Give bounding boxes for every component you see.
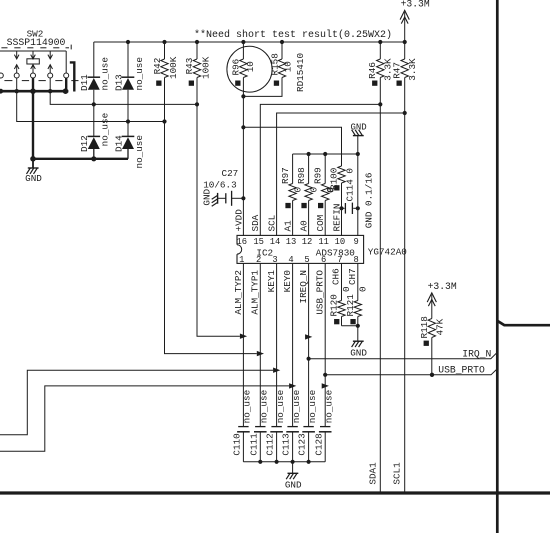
svg-text:no_use: no_use [134,135,145,168]
switch frame bracket [70,62,75,91]
svg-text:0: 0 [357,286,368,292]
diode D14 no_use [122,135,135,137]
switch contact arrows [16,51,18,59]
bus horizontal (bottom, thick) [0,491,550,494]
svg-text:RD15410: RD15410 [295,53,306,92]
wire pin5 IREQ_N down [308,263,310,426]
resistor R97 0 [292,154,294,184]
diode D11 no_use [93,42,95,77]
svg-text:47K: 47K [434,318,445,335]
svg-text:15: 15 [253,237,264,247]
svg-text:R120: R120 [329,294,340,316]
wire top pull-up rail [94,41,405,43]
svg-text:C110: C110 [232,433,243,455]
svg-text:14: 14 [270,237,281,247]
svg-text:GND: GND [350,122,366,132]
svg-text:SDA1: SDA1 [367,462,378,485]
svg-text:3.3K: 3.3K [407,58,418,81]
svg-text:R121: R121 [345,294,356,317]
diode D13 no_use [127,42,129,77]
svg-text:SSSP114900: SSSP114900 [7,37,66,48]
svg-text:IC2: IC2 [256,248,273,259]
ground (C27) [217,193,219,204]
bus vertical (right, thick) [496,0,499,533]
switch dashed outline marks [4,80,12,82]
switch common bus (thick) [0,90,68,93]
resistor R96 10 [242,42,244,59]
resistor R121 0 [357,263,359,300]
svg-text:no_use: no_use [259,390,270,423]
wire ALM_TYP2 down to pin1 (wire1) [197,104,240,336]
ground (switch) [32,159,34,168]
diode D12 no_use [88,135,101,137]
ground (capacitor rail) [292,462,294,473]
svg-text:CH7: CH7 [347,268,358,285]
resistor R46 3.3K [379,42,381,59]
wire SDA pin15 to R46 [260,104,380,236]
svg-text:C114 0: C114 0 [345,168,356,201]
resistor R47 3.3K [404,42,406,59]
resistor R118 47K [428,319,435,338]
svg-text:R99: R99 [313,167,324,184]
resistor R158 10 [281,42,283,59]
switch pole wires to common bus [16,78,18,91]
svg-text:USB_PRTO: USB_PRTO [438,364,485,375]
svg-text:no_use: no_use [100,113,111,146]
svg-text:D13: D13 [113,74,124,91]
svg-text:R47: R47 [392,62,403,79]
wire switch common to GND (thick) [33,91,128,159]
svg-text:ADS7830: ADS7830 [316,248,355,259]
svg-text:D11: D11 [79,74,90,91]
svg-text:CH6: CH6 [331,268,342,285]
wire pin4 KEY0 down [292,263,294,426]
svg-text:IREQ_N: IREQ_N [298,270,309,303]
svg-text:0: 0 [293,187,304,193]
svg-text:16: 16 [237,237,248,247]
svg-text:13: 13 [286,237,297,247]
svg-text:R43: R43 [184,58,195,75]
svg-text:SDA: SDA [250,214,261,231]
svg-text:10: 10 [335,237,346,247]
svg-text:IRQ_N: IRQ_N [462,349,491,360]
op-amp/ADC IC2 ADS7830 body [237,235,364,263]
svg-text:C128: C128 [313,433,324,455]
svg-text:GND: GND [25,173,42,184]
svg-text:USB_PRTO: USB_PRTO [315,270,326,315]
wire pin1 ALM_TYP2 down [242,263,244,426]
svg-text:no_use: no_use [275,390,286,423]
svg-text:no_use: no_use [100,57,111,90]
wire pin3 KEY1 down [276,263,278,426]
svg-text:ALM_TYP2: ALM_TYP2 [233,270,244,315]
wire KEY1 to left edge (wire3) [0,370,273,435]
svg-text:C27: C27 [222,168,239,179]
ground (R120/R121) [353,340,364,342]
svg-text:no_use: no_use [291,390,302,423]
svg-text:10: 10 [245,61,256,72]
svg-text:no_use: no_use [307,390,318,423]
resistor R43 100K [196,42,198,59]
wire KEY0 to left edge (wire4) [0,386,289,451]
wire pin2 ALM_TYP1 down [259,263,261,426]
svg-text:R98: R98 [296,167,307,184]
svg-text:R100: R100 [328,168,339,190]
svg-text:R42: R42 [152,58,163,75]
resistor R120 0 [341,263,343,300]
svg-text:KEY1: KEY1 [266,270,277,293]
svg-text:C123: C123 [297,433,308,455]
svg-text:C112: C112 [265,433,276,455]
svg-text:0: 0 [341,286,352,292]
wire capacitor common rail [243,461,325,463]
resistor R98 0 [308,154,310,184]
wire +VDD pin16 [242,96,244,236]
svg-text:+3.3M: +3.3M [401,0,430,10]
wire +VDD to REFIN pull (R100) [243,127,341,166]
svg-text:SCL1: SCL1 [392,462,403,485]
svg-text:A1: A1 [283,220,294,232]
wire ALM_TYP2 from switch [50,91,197,104]
svg-text:0: 0 [309,187,320,193]
svg-text:100K: 100K [200,56,211,79]
svg-text:GND: GND [350,347,367,358]
svg-text:C113: C113 [281,433,292,455]
svg-text:REFIN: REFIN [331,204,342,232]
svg-text:GND: GND [202,188,213,205]
bus branch top right (thick) [497,321,550,325]
resistor R99 0 [324,154,326,184]
resistor R100 0 [338,166,345,183]
svg-text:no_use: no_use [134,57,145,90]
svg-text:D14: D14 [113,135,124,152]
svg-text:R96: R96 [231,59,242,76]
svg-text:+3.3M: +3.3M [428,281,457,292]
svg-text:KEY0: KEY0 [282,270,293,292]
wire GND tie rail [293,153,358,155]
switch actuator rectangle [27,59,39,64]
svg-text:GND: GND [285,480,302,491]
resistor R42 100K [164,42,166,59]
svg-text:R97: R97 [280,167,291,184]
svg-text:10: 10 [283,61,294,72]
wire ALM_TYP1 from switch [17,91,165,121]
svg-text:R46: R46 [367,62,378,79]
svg-text:ALM_TYP1: ALM_TYP1 [250,270,261,315]
svg-text:11: 11 [318,237,329,247]
svg-text:A0: A0 [299,220,310,231]
switch pole circles [0,73,3,78]
svg-text:R118: R118 [419,316,430,338]
svg-text:0: 0 [326,187,337,193]
svg-text:YG742A0: YG742A0 [368,247,407,258]
svg-text:**Need short test result(0.25W: **Need short test result(0.25WX2) [194,29,392,41]
svg-text:no_use: no_use [324,390,335,423]
svg-text:+VDD: +VDD [233,209,244,232]
svg-text:no_use: no_use [242,390,253,423]
svg-text:9: 9 [354,237,359,247]
svg-text:SCL: SCL [267,215,278,232]
capacitor C114 0.1/16 [342,207,345,209]
short-test group circle RD15410 [227,46,272,92]
wire R120/R121 common [342,325,358,327]
wire USB_PRTO [325,369,497,375]
wire SCL pin14 to R47 [277,113,405,236]
svg-text:COM: COM [315,215,326,232]
ground (pin9 net) [357,136,359,236]
wire pin6 USB_PRTO down [324,263,326,426]
wire ALM_TYP1 down to pin2 (KEY wire2) [165,122,257,354]
svg-text:GND 0.1/16: GND 0.1/16 [363,173,374,229]
wire IRQ_N [309,352,498,359]
svg-text:C111: C111 [248,433,259,456]
svg-text:D12: D12 [79,135,90,152]
svg-text:100K: 100K [168,56,179,79]
svg-text:12: 12 [302,237,313,247]
